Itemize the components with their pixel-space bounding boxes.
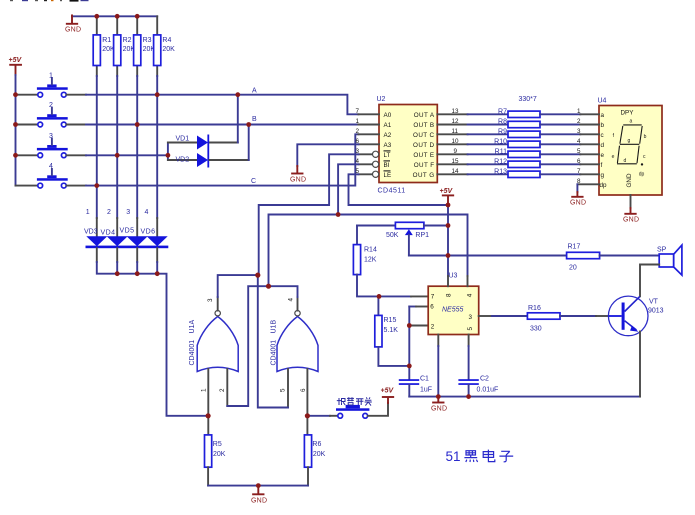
svg-text:OUT A: OUT A <box>414 112 435 119</box>
svg-text:R1: R1 <box>102 37 111 44</box>
SECTION: top edge artifacts <box>10 0 89 2</box>
node gates gnd <box>256 483 261 488</box>
wire: dp to ground <box>576 184 578 192</box>
diode VD3 <box>86 236 107 246</box>
wire: A3 to ground <box>297 144 358 166</box>
svg-text:g: g <box>601 172 605 179</box>
U1B output bubble <box>295 311 300 316</box>
U2 pin A1 stub <box>358 124 379 126</box>
svg-text:4: 4 <box>145 209 149 216</box>
svg-text:U1B: U1B <box>271 320 278 334</box>
svg-text:A: A <box>252 88 257 95</box>
svg-text:3: 3 <box>49 133 53 140</box>
svg-text:R6: R6 <box>312 441 321 448</box>
svg-text:3: 3 <box>207 298 214 302</box>
svg-text:OUT F: OUT F <box>414 162 435 169</box>
label alarm switch (报警开关 drawn as strokes) <box>337 397 372 405</box>
resistor R4 <box>154 35 161 66</box>
wire: column 1 <box>96 76 98 218</box>
wire: row 4 / net C <box>66 134 358 185</box>
node rail-R2 <box>115 14 120 19</box>
node R15-C1 <box>407 364 412 369</box>
svg-text:GND: GND <box>570 200 586 207</box>
svg-text:2: 2 <box>577 118 581 125</box>
U1B pin 6 down <box>306 369 308 435</box>
U4 pin c <box>577 128 604 139</box>
wire: column 3 <box>136 76 138 218</box>
svg-text:+5V: +5V <box>440 188 454 195</box>
svg-text:a: a <box>601 112 605 119</box>
node gnd-pin1 <box>436 394 441 399</box>
gate U1A CD4001 body <box>197 317 238 372</box>
svg-text:1: 1 <box>201 388 208 392</box>
label R4 20K <box>162 37 175 53</box>
svg-text:3: 3 <box>577 128 581 135</box>
svg-text:5: 5 <box>577 148 581 155</box>
svg-text:7: 7 <box>356 108 360 115</box>
svg-text:dp: dp <box>600 182 608 189</box>
svg-text:R3: R3 <box>143 37 152 44</box>
svg-text:4: 4 <box>467 293 474 297</box>
capacitor C2 <box>458 379 478 396</box>
wire: VD3 cathode drop <box>96 248 98 262</box>
svg-text:12: 12 <box>452 118 460 125</box>
node pin2 tap <box>407 323 412 328</box>
resistor R3 <box>134 35 141 66</box>
wire: VD5 to bus <box>136 262 138 274</box>
diode VD1 <box>168 136 238 150</box>
svg-text:R11: R11 <box>495 148 507 155</box>
svg-text:VD4: VD4 <box>101 230 116 237</box>
svg-text:GND: GND <box>623 217 639 224</box>
svg-text:VD6: VD6 <box>141 229 156 236</box>
svg-text:DPY: DPY <box>621 110 635 117</box>
svg-text:U3: U3 <box>449 273 458 280</box>
svg-text:OUT G: OUT G <box>413 172 435 179</box>
svg-text:2: 2 <box>356 128 360 135</box>
node +5V RP1 <box>446 223 451 228</box>
svg-text:7: 7 <box>431 293 435 300</box>
U2 internal labels right <box>413 112 435 179</box>
U2 pin A0 stub <box>358 113 379 115</box>
svg-text:GND: GND <box>290 177 306 184</box>
wire: VD4 cathode drop <box>116 248 118 262</box>
transistor Q1 VT 9013 <box>608 296 648 336</box>
U4 pin a <box>577 108 605 119</box>
node row2-col3 <box>135 122 140 127</box>
wire: VD6 to bus <box>156 262 158 274</box>
resistor R17 <box>567 252 660 258</box>
U2 pin OUTE stub <box>437 153 467 155</box>
svg-text:R12: R12 <box>494 158 507 165</box>
switch S4 <box>16 163 68 188</box>
node row3-col2 <box>115 153 120 158</box>
resistor R14 <box>353 226 379 297</box>
label R1 20K <box>102 37 115 53</box>
svg-text:BI: BI <box>384 162 390 169</box>
node BI-reset bus <box>336 212 341 217</box>
svg-text:6: 6 <box>300 388 307 392</box>
svg-text:14: 14 <box>452 168 460 175</box>
svg-text:f: f <box>601 162 603 169</box>
wire: column 4 <box>156 76 158 218</box>
svg-text:A0: A0 <box>384 112 392 119</box>
svg-text:CD4001: CD4001 <box>189 340 196 366</box>
svg-text:d: d <box>624 158 627 164</box>
diode VD1/VD2 cathode bar <box>207 135 209 168</box>
svg-text:4: 4 <box>49 163 53 170</box>
svg-text:1: 1 <box>86 209 90 216</box>
U2 pin A3 stub <box>358 143 379 145</box>
switch S3 <box>16 133 68 158</box>
U3 pin 6 stub <box>409 306 428 308</box>
7-segment glyph <box>617 125 643 166</box>
U2 pin OUTA stub <box>437 113 467 115</box>
wire: VD1 cathode to net A <box>237 95 239 143</box>
svg-text:B: B <box>252 116 257 123</box>
resistor R2 pins <box>116 16 118 76</box>
svg-text:1uF: 1uF <box>420 387 432 394</box>
wire: R5/R6 ground bus <box>208 485 308 487</box>
svg-text:R14: R14 <box>364 247 377 254</box>
svg-text:VD3: VD3 <box>84 229 98 236</box>
label 51 footer text (51黑电子 drawn as strokes) <box>446 449 514 464</box>
svg-text:NE555: NE555 <box>442 307 464 314</box>
svg-text:R10: R10 <box>494 138 507 145</box>
svg-text:0.01uF: 0.01uF <box>477 387 499 394</box>
svg-text:VD5: VD5 <box>120 228 135 235</box>
switch S5 alarm <box>336 405 369 418</box>
node bus-S2 <box>13 122 18 127</box>
ground GND (dp) <box>570 192 586 207</box>
U2 pin BI stub with bubble <box>358 161 378 167</box>
svg-text:R8: R8 <box>498 119 507 126</box>
wire: column 2 <box>116 76 118 218</box>
resistor R13 <box>468 171 581 177</box>
node bus-S3 <box>13 153 18 158</box>
svg-text:C: C <box>251 178 256 185</box>
potentiometer RP1 <box>357 222 448 255</box>
power +5V (alarm) <box>381 388 395 404</box>
svg-text:LT: LT <box>384 152 391 159</box>
svg-text:5.1K: 5.1K <box>384 327 399 334</box>
U2 pin LE stub with bubble <box>358 171 378 177</box>
resistor R1 pins <box>96 16 98 76</box>
node U1A-out LT <box>255 273 260 278</box>
node rail-R1 <box>94 14 99 19</box>
svg-text:8: 8 <box>446 293 453 297</box>
svg-text:3: 3 <box>468 314 472 321</box>
svg-text:9013: 9013 <box>648 308 664 315</box>
svg-text:2: 2 <box>219 388 226 392</box>
U3 pin 4 stub <box>467 276 469 286</box>
svg-text:d: d <box>601 142 605 149</box>
svg-text:OUT E: OUT E <box>413 152 434 159</box>
resistor R1 <box>93 35 100 66</box>
wire: diode bus to gate input <box>97 262 208 416</box>
timer U3 NE555 body <box>428 286 479 334</box>
svg-text:1: 1 <box>356 118 360 125</box>
svg-text:330: 330 <box>530 326 542 333</box>
diode VD4 <box>107 236 128 246</box>
svg-text:5: 5 <box>280 388 287 392</box>
svg-text:13: 13 <box>452 108 460 115</box>
svg-text:6: 6 <box>577 158 581 165</box>
svg-text:1: 1 <box>577 108 581 115</box>
svg-text:a: a <box>630 119 633 125</box>
svg-text:9: 9 <box>454 148 458 155</box>
wire: LE to +5V <box>349 174 449 205</box>
svg-text:b: b <box>644 134 647 140</box>
speaker SP <box>659 245 682 275</box>
U1A pin 2 to U1B output net <box>227 286 268 406</box>
U1A pin 1 down <box>207 369 209 435</box>
segment labels <box>612 119 647 178</box>
node U1B-out reset <box>266 284 271 289</box>
U2 internal labels left <box>384 112 392 179</box>
svg-text:11: 11 <box>452 128 459 135</box>
wire: threshold to U3 pin7 <box>379 295 428 297</box>
resistor R9 <box>468 131 581 137</box>
node diodebus-4 <box>155 271 160 276</box>
wire: speaker to collector <box>640 265 659 297</box>
wire: row 1 / net A <box>66 95 358 115</box>
svg-text:+5V: +5V <box>9 57 23 64</box>
node diodebus-2 <box>115 271 120 276</box>
U3 pin 2 stub <box>409 325 428 327</box>
U2 pin OUTD stub <box>437 143 467 145</box>
U2 pin LT stub with bubble <box>358 151 378 157</box>
U1A output bubble <box>215 311 220 316</box>
svg-text:2: 2 <box>49 102 53 109</box>
wire: LT to U1A output net <box>259 154 359 275</box>
svg-text:2: 2 <box>107 209 111 216</box>
U3 pin 5 drop to C2 <box>468 335 470 380</box>
wire: VD2 cathode to net B <box>248 125 250 161</box>
wire: alarm switch to +5V <box>368 403 388 416</box>
switch S2 <box>16 102 68 127</box>
svg-text:6: 6 <box>430 304 434 311</box>
node bus-S1 <box>13 92 18 97</box>
svg-text:330*7: 330*7 <box>519 96 537 103</box>
diode VD3-VD6 shared cathode bar <box>86 246 169 249</box>
diode VD5 <box>127 236 148 246</box>
svg-text:LE: LE <box>384 172 392 179</box>
svg-text:A2: A2 <box>384 132 392 139</box>
svg-text:R7: R7 <box>498 108 507 115</box>
wire: VD5 cathode drop <box>136 248 138 262</box>
svg-text:OUT D: OUT D <box>413 142 435 149</box>
wire: R6 node to alarm switch <box>307 415 337 417</box>
svg-text:GND: GND <box>65 27 81 34</box>
svg-text:c: c <box>601 132 604 139</box>
resistor R10 <box>468 141 581 147</box>
display U4 body <box>599 106 662 196</box>
switch S1 <box>16 72 68 97</box>
svg-text:20K: 20K <box>213 451 226 458</box>
wire: ground bus bottom <box>409 396 640 398</box>
wire: BI drop <box>338 164 358 214</box>
U2 pin OUTG stub <box>437 173 467 175</box>
svg-text:GND: GND <box>626 173 633 187</box>
svg-text:12K: 12K <box>364 257 377 264</box>
resistor R3 pins <box>136 16 138 76</box>
svg-text:4: 4 <box>288 298 295 302</box>
svg-text:50K: 50K <box>386 232 399 239</box>
op-amp U2 body CD4511 <box>379 105 437 183</box>
node gate1 input <box>206 413 211 418</box>
resistor R11 <box>468 151 581 157</box>
node +5V wiper <box>446 253 451 258</box>
node VD anode <box>166 153 171 158</box>
svg-text:R2: R2 <box>123 37 132 44</box>
svg-text:A1: A1 <box>384 122 392 129</box>
gate U1B CD4001 body <box>277 317 318 372</box>
node diodebus-3 <box>135 271 140 276</box>
wire: U3 pin6/pin2 link down to C1 <box>408 307 410 380</box>
svg-text:OUT C: OUT C <box>413 132 435 139</box>
ground GND (under U4) <box>623 208 639 224</box>
resistor R5 <box>205 435 212 486</box>
wire: row 3 to VD1/VD2 anodes <box>66 154 167 156</box>
svg-text:2: 2 <box>431 324 435 331</box>
U4 pin f <box>577 158 603 169</box>
node +5V LE <box>446 203 451 208</box>
svg-text:R13: R13 <box>494 168 507 175</box>
ground GND (gates) <box>251 486 267 505</box>
diode VD6 <box>147 236 168 246</box>
svg-text:VD2: VD2 <box>176 156 190 163</box>
svg-text:GND: GND <box>431 406 447 413</box>
svg-text:OUT B: OUT B <box>413 122 434 129</box>
svg-text:R4: R4 <box>162 37 171 44</box>
wire: VD6 cathode drop <box>156 248 158 262</box>
svg-text:VT: VT <box>649 299 659 306</box>
U2 pin OUTF stub <box>437 163 467 165</box>
U4 pin d <box>577 138 605 149</box>
diode VD2 <box>168 153 249 167</box>
svg-text:R17: R17 <box>568 244 581 251</box>
svg-text:20: 20 <box>569 265 577 272</box>
svg-text:e: e <box>601 152 605 159</box>
svg-text:SP: SP <box>657 247 667 254</box>
svg-text:1: 1 <box>49 72 53 79</box>
ground GND (A3) <box>290 166 306 184</box>
capacitor C1 <box>399 379 419 396</box>
node rail-R3 <box>135 14 140 19</box>
power +5V (under U2) <box>440 188 454 205</box>
node gate2 input <box>305 413 310 418</box>
svg-text:7: 7 <box>577 168 581 175</box>
resistor R7 <box>468 111 581 117</box>
node VD2-B <box>246 122 251 127</box>
wire: VD4 to bus <box>116 262 118 274</box>
svg-text:VD1: VD1 <box>176 135 190 142</box>
U4 common pin <box>630 195 632 208</box>
svg-text:CD4001: CD4001 <box>271 340 278 366</box>
node R14-R15-pin7 <box>377 294 382 299</box>
resistor R6 <box>304 435 311 486</box>
resistor R8 <box>468 121 581 127</box>
svg-text:20K: 20K <box>162 46 175 53</box>
svg-text:C2: C2 <box>480 376 489 383</box>
svg-text:R5: R5 <box>213 441 222 448</box>
svg-text:GND: GND <box>251 498 267 505</box>
svg-text:R9: R9 <box>498 128 507 135</box>
svg-text:g: g <box>628 138 631 144</box>
wire: VD1/VD2 anode link <box>167 143 169 161</box>
wire: top GND rail <box>72 15 157 17</box>
U2 pin OUTB stub <box>437 124 467 126</box>
resistor R4 pins <box>156 16 158 76</box>
resistor R2 <box>114 35 121 66</box>
U2 pin OUTC stub <box>437 133 467 135</box>
svg-text:b: b <box>601 122 605 129</box>
node row1-col4 <box>155 92 160 97</box>
label R3 20K <box>143 37 156 53</box>
wire: U1A output up <box>218 275 258 310</box>
svg-text:3: 3 <box>126 209 130 216</box>
svg-text:20K: 20K <box>313 451 326 458</box>
svg-text:C1: C1 <box>420 376 429 383</box>
U2 pin A2 stub <box>358 133 379 135</box>
svg-text:A3: A3 <box>384 142 392 149</box>
svg-text:e: e <box>612 154 615 160</box>
resistor R16 <box>492 313 608 319</box>
svg-text:15: 15 <box>452 158 460 165</box>
svg-text:RP1: RP1 <box>415 232 429 239</box>
wire: U3 reset bus <box>269 215 468 287</box>
U4 pin e <box>577 148 605 159</box>
wire: row 2 / net B <box>66 124 358 126</box>
svg-text:5: 5 <box>467 327 474 331</box>
label R2 20K <box>123 37 136 53</box>
node gnd-C2 <box>466 394 471 399</box>
resistor R15 <box>375 296 410 366</box>
power +5V (left) <box>9 57 23 75</box>
svg-text:U2: U2 <box>377 96 386 103</box>
svg-text:4: 4 <box>577 138 581 145</box>
svg-text:dp: dp <box>639 172 645 178</box>
wire: left +5V bus <box>15 75 17 186</box>
svg-text:U4: U4 <box>598 98 607 105</box>
svg-text:R15: R15 <box>384 317 397 324</box>
U3 pin 3 stub <box>479 315 492 317</box>
wire: emitter to ground bus <box>639 332 641 397</box>
wire: +5V rail to U3 pin8 <box>447 205 449 286</box>
svg-text:10: 10 <box>452 138 460 145</box>
node row4-col1 <box>94 183 99 188</box>
svg-text:CD4511: CD4511 <box>378 188 406 195</box>
U3 pin 1 drop <box>437 335 439 397</box>
ground GND (top left) <box>65 15 81 33</box>
node VD1-A <box>235 92 240 97</box>
U1B pin 5 to U1A output net <box>258 275 288 407</box>
U4 pin dp <box>577 178 607 189</box>
svg-text:R16: R16 <box>528 305 541 312</box>
ground GND (U3) <box>431 397 447 413</box>
U4 pin g <box>577 168 605 179</box>
svg-text:51: 51 <box>446 449 461 464</box>
svg-text:+5V: +5V <box>381 388 395 395</box>
svg-text:U1A: U1A <box>189 320 196 334</box>
resistor R12 <box>468 161 581 167</box>
U4 pin b <box>577 118 605 129</box>
wire: U1B output up <box>269 286 298 310</box>
wire: wiper row to R17 <box>409 255 567 257</box>
